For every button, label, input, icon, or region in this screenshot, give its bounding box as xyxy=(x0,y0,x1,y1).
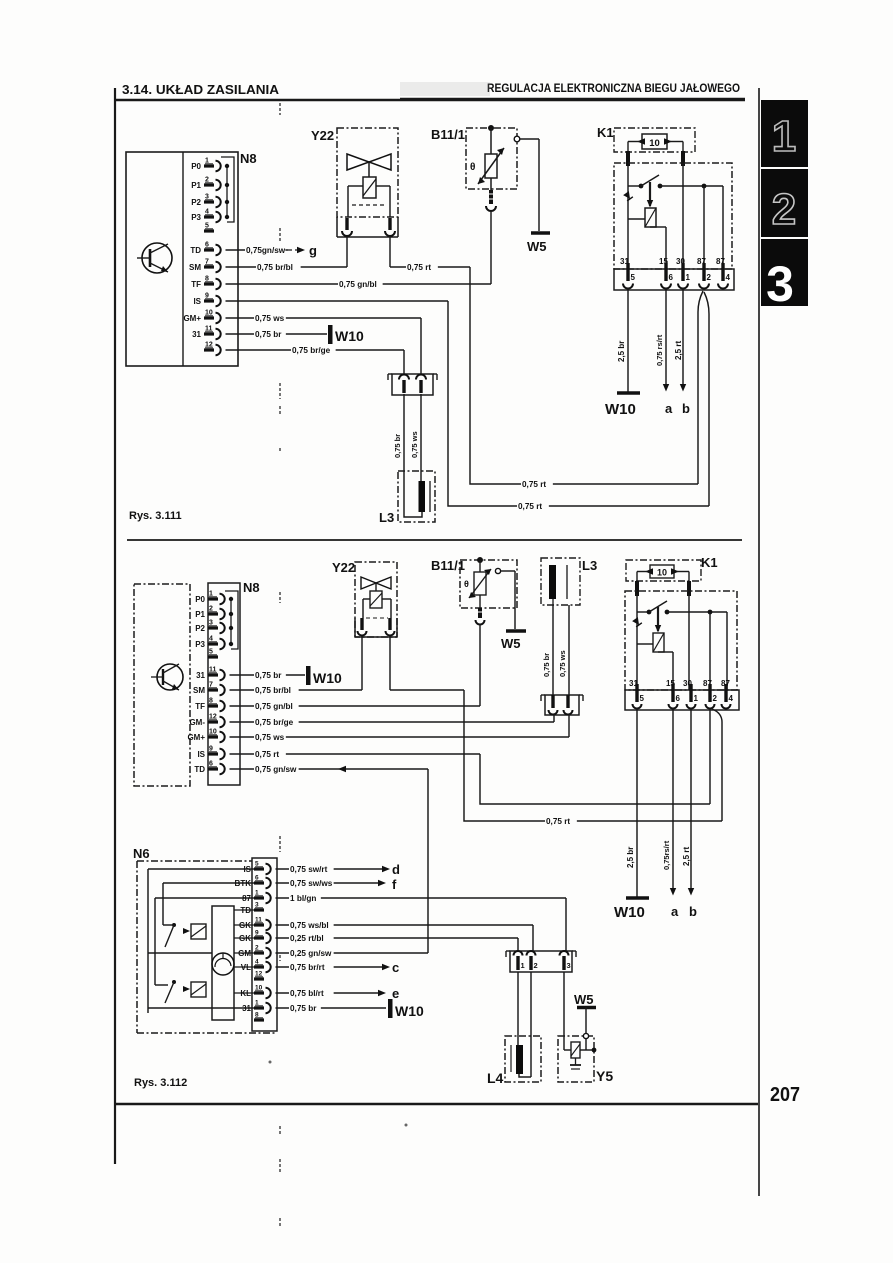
svg-text:Rys. 3.111: Rys. 3.111 xyxy=(129,510,182,522)
svg-text:0,75 br: 0,75 br xyxy=(255,671,282,680)
svg-text:f: f xyxy=(392,877,397,892)
svg-text:2,5 br: 2,5 br xyxy=(626,847,635,868)
svg-text:TD: TD xyxy=(240,906,251,915)
svg-text:c: c xyxy=(392,960,399,975)
svg-text:K1: K1 xyxy=(701,555,718,570)
svg-text:b: b xyxy=(682,401,690,416)
svg-text:0,75 br: 0,75 br xyxy=(542,653,551,677)
svg-text:0,75gn/sw: 0,75gn/sw xyxy=(246,246,286,255)
svg-text:0,75 br: 0,75 br xyxy=(290,1004,317,1013)
svg-text:W10: W10 xyxy=(614,904,645,921)
svg-text:a: a xyxy=(665,401,673,416)
svg-text:0,75 rt: 0,75 rt xyxy=(518,502,542,511)
svg-text:SM: SM xyxy=(189,263,201,272)
svg-text:31: 31 xyxy=(196,671,205,680)
svg-text:0,75 rt: 0,75 rt xyxy=(522,480,546,489)
svg-text:31: 31 xyxy=(242,1004,251,1013)
svg-text:GM+: GM+ xyxy=(187,733,205,742)
svg-text:W10: W10 xyxy=(313,670,342,686)
svg-text:KL: KL xyxy=(240,989,251,998)
svg-text:K1: K1 xyxy=(597,125,614,140)
svg-text:P3: P3 xyxy=(195,640,205,649)
svg-text:d: d xyxy=(392,862,400,877)
svg-text:0,25 rt/bl: 0,25 rt/bl xyxy=(290,934,324,943)
svg-text:0,75 br/bl: 0,75 br/bl xyxy=(257,263,293,272)
svg-text:W5: W5 xyxy=(527,239,547,254)
svg-text:GM+: GM+ xyxy=(183,314,201,323)
svg-text:0,75 br/ge: 0,75 br/ge xyxy=(292,346,331,355)
svg-text:0,75 rt: 0,75 rt xyxy=(255,750,279,759)
svg-text:6: 6 xyxy=(669,273,674,282)
svg-text:0,75 bl/rt: 0,75 bl/rt xyxy=(290,989,324,998)
svg-text:0,75 sw/rt: 0,75 sw/rt xyxy=(290,865,328,874)
svg-text:2: 2 xyxy=(707,273,712,282)
svg-text:3.14. UKŁAD ZASILANIA: 3.14. UKŁAD ZASILANIA xyxy=(122,83,279,97)
svg-text:N8: N8 xyxy=(243,580,260,595)
svg-text:0,75 br/bl: 0,75 br/bl xyxy=(255,686,291,695)
svg-text:0,75 ws: 0,75 ws xyxy=(558,650,567,677)
svg-text:10: 10 xyxy=(657,568,667,578)
svg-text:GK: GK xyxy=(239,934,251,943)
svg-text:0,75 rs/rt: 0,75 rs/rt xyxy=(655,334,664,366)
svg-text:VL: VL xyxy=(241,963,251,972)
svg-text:W10: W10 xyxy=(395,1003,424,1019)
svg-text:SM: SM xyxy=(193,686,205,695)
svg-text:6: 6 xyxy=(676,694,681,703)
svg-text:TF: TF xyxy=(191,280,201,289)
svg-text:2: 2 xyxy=(534,961,538,970)
svg-text:0,75 sw/ws: 0,75 sw/ws xyxy=(290,879,333,888)
svg-text:1: 1 xyxy=(521,961,525,970)
svg-text:3: 3 xyxy=(567,961,571,970)
svg-text:GM: GM xyxy=(238,949,251,958)
svg-text:N6: N6 xyxy=(133,846,150,861)
svg-text:P3: P3 xyxy=(191,213,201,222)
svg-text:IS: IS xyxy=(243,865,251,874)
svg-text:a: a xyxy=(671,904,679,919)
svg-text:0,75 rt: 0,75 rt xyxy=(407,263,431,272)
svg-text:IS: IS xyxy=(193,297,201,306)
svg-text:P1: P1 xyxy=(191,181,201,190)
svg-text:0,75 gn/bl: 0,75 gn/bl xyxy=(339,280,377,289)
svg-text:0,75 gn/bl: 0,75 gn/bl xyxy=(255,702,293,711)
svg-text:0,75 br: 0,75 br xyxy=(393,434,402,458)
svg-text:P0: P0 xyxy=(191,162,201,171)
svg-text:0,75 ws: 0,75 ws xyxy=(410,431,419,458)
svg-text:θ: θ xyxy=(470,162,475,173)
svg-text:207: 207 xyxy=(770,1084,800,1106)
svg-text:W10: W10 xyxy=(335,328,364,344)
svg-text:4: 4 xyxy=(729,694,734,703)
svg-text:W10: W10 xyxy=(605,401,636,418)
svg-text:GM-: GM- xyxy=(189,718,205,727)
svg-text:5: 5 xyxy=(640,694,645,703)
svg-text:0,75 ws/bl: 0,75 ws/bl xyxy=(290,921,329,930)
svg-text:0,75 br/rt: 0,75 br/rt xyxy=(290,963,325,972)
svg-text:31: 31 xyxy=(192,330,201,339)
svg-text:BTK: BTK xyxy=(235,879,252,888)
svg-text:3: 3 xyxy=(766,256,794,312)
svg-text:0,75 ws: 0,75 ws xyxy=(255,733,285,742)
svg-text:0,75rs/rt: 0,75rs/rt xyxy=(662,840,671,870)
svg-text:N8: N8 xyxy=(240,151,257,166)
svg-text:2: 2 xyxy=(713,694,718,703)
svg-text:5: 5 xyxy=(631,273,636,282)
svg-text:W5: W5 xyxy=(574,992,594,1007)
svg-text:1 bl/gn: 1 bl/gn xyxy=(290,894,316,903)
svg-text:Y5: Y5 xyxy=(596,1068,613,1084)
svg-text:TD: TD xyxy=(194,765,205,774)
svg-text:TD: TD xyxy=(190,246,201,255)
svg-text:4: 4 xyxy=(726,273,731,282)
svg-text:2,5 br: 2,5 br xyxy=(617,341,626,362)
svg-text:L3: L3 xyxy=(379,510,394,525)
svg-text:b: b xyxy=(689,904,697,919)
svg-text:87: 87 xyxy=(242,894,251,903)
svg-text:0,75 br: 0,75 br xyxy=(255,330,282,339)
svg-text:2,5 rt: 2,5 rt xyxy=(674,341,683,360)
svg-text:0,25 gn/sw: 0,25 gn/sw xyxy=(290,949,332,958)
svg-text:P2: P2 xyxy=(191,198,201,207)
svg-text:0,75 gn/sw: 0,75 gn/sw xyxy=(255,765,297,774)
svg-text:P1: P1 xyxy=(195,610,205,619)
svg-text:0,75 ws: 0,75 ws xyxy=(255,314,285,323)
svg-text:g: g xyxy=(309,243,317,258)
svg-text:L3: L3 xyxy=(582,558,597,573)
svg-text:1: 1 xyxy=(694,694,699,703)
svg-text:W5: W5 xyxy=(501,636,521,651)
svg-text:2: 2 xyxy=(772,185,796,234)
svg-text:θ: θ xyxy=(464,579,469,589)
svg-text:P2: P2 xyxy=(195,624,205,633)
svg-text:GK: GK xyxy=(239,921,251,930)
svg-text:1: 1 xyxy=(686,273,691,282)
svg-text:REGULACJA ELEKTRONICZNA BIEGU: REGULACJA ELEKTRONICZNA BIEGU JAŁOWEGO xyxy=(487,83,740,95)
svg-text:Y22: Y22 xyxy=(332,560,355,575)
svg-text:0,75 br/ge: 0,75 br/ge xyxy=(255,718,294,727)
svg-text:10: 10 xyxy=(649,138,660,149)
svg-text:Rys. 3.112: Rys. 3.112 xyxy=(134,1077,187,1089)
svg-text:1: 1 xyxy=(772,112,796,161)
svg-text:TF: TF xyxy=(195,702,205,711)
svg-text:IS: IS xyxy=(197,750,205,759)
svg-text:0,75 rt: 0,75 rt xyxy=(546,817,570,826)
svg-text:L4: L4 xyxy=(487,1070,504,1086)
svg-text:P0: P0 xyxy=(195,595,205,604)
svg-text:Y22: Y22 xyxy=(311,128,334,143)
svg-text:e: e xyxy=(392,986,399,1001)
svg-text:B11/1: B11/1 xyxy=(431,127,465,142)
svg-text:2,5 rt: 2,5 rt xyxy=(682,847,691,866)
